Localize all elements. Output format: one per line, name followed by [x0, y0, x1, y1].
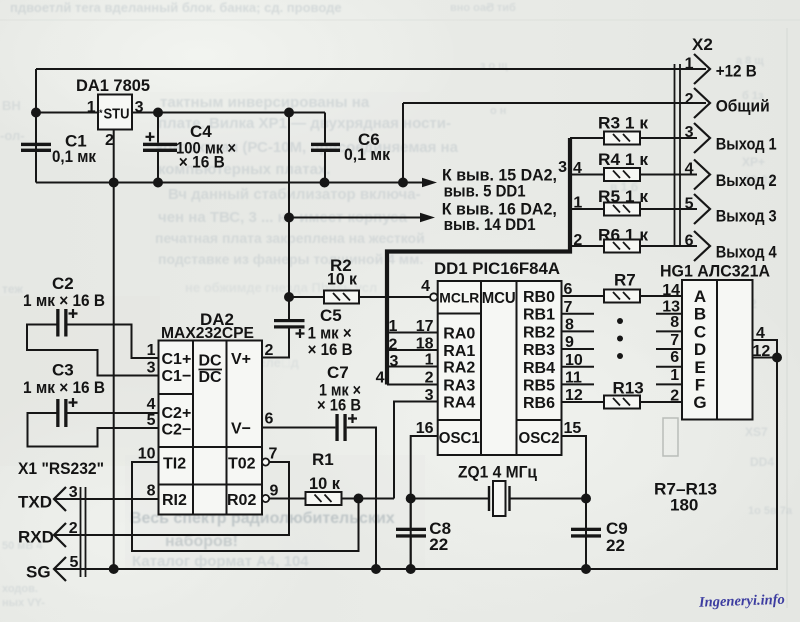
svg-text:6: 6 [265, 411, 274, 428]
DD1 pin name RB1 [523, 307, 555, 324]
node R2 top junction [285, 293, 293, 301]
svg-text:OSC1: OSC1 [439, 430, 480, 447]
value C5 1 mk x 16 V [308, 306, 353, 359]
svg-text:5: 5 [147, 412, 156, 429]
resistor R7 [604, 290, 640, 303]
svg-text:8: 8 [147, 483, 156, 500]
bleed artifact rectangle below HG1 [663, 418, 678, 456]
wire ZQ1 row [411, 498, 586, 500]
svg-text:22: 22 [429, 535, 448, 554]
capacitor C2 [56, 309, 77, 337]
svg-text:TXD: TXD [18, 493, 52, 512]
net label Vyhod 3 [716, 207, 777, 226]
wire RA4 down to R1 node [394, 402, 438, 499]
display HG1 ALS321A box [682, 280, 753, 420]
DA2 pin numbers [138, 342, 279, 500]
DD1 pin name RB3 [523, 342, 555, 359]
X2 pin numbers [685, 56, 694, 250]
node C4 top junction [154, 109, 162, 117]
svg-text:RI2: RI2 [162, 492, 187, 509]
DD1 MCU label [482, 290, 516, 307]
DD1 pin name MCLR [439, 290, 479, 306]
wire C2 right to C1+ pin1 [66, 325, 159, 359]
svg-text:4: 4 [573, 160, 582, 177]
svg-text:DD1 PIC16F84A: DD1 PIC16F84A [434, 259, 560, 278]
wire C9 leads [585, 499, 587, 570]
pin circle RO2 [262, 495, 269, 502]
svg-text:B: B [694, 305, 706, 324]
svg-text:выв. 14 DD1: выв. 14 DD1 [444, 215, 536, 234]
pin circle MCLR [430, 293, 437, 300]
resistor R2 [324, 291, 359, 304]
ellipsis dots between R7 and R13 [617, 318, 623, 359]
note R7-R13 180 [654, 480, 717, 515]
svg-text:17: 17 [416, 318, 434, 335]
svg-text:2: 2 [69, 520, 78, 537]
HG1 segment letter C [694, 322, 706, 341]
svg-text:RB2: RB2 [523, 324, 555, 341]
wire V- pin6 to C7 [262, 427, 335, 429]
svg-text:2: 2 [389, 337, 398, 354]
svg-text:E: E [694, 358, 705, 377]
svg-text:DC: DC [199, 353, 223, 370]
svg-text:HG1 АЛС321А: HG1 АЛС321А [660, 262, 770, 281]
svg-text:Выход 4: Выход 4 [716, 243, 777, 262]
svg-text:4: 4 [147, 396, 156, 413]
svg-text:4: 4 [685, 161, 694, 178]
svg-text:8: 8 [670, 314, 679, 331]
HG1 segment letter D [694, 340, 706, 359]
wire bottom ground rail / SG [54, 358, 777, 570]
svg-text:6: 6 [564, 281, 573, 298]
svg-text:C3: C3 [52, 361, 74, 380]
DD1 pin name RB4 [523, 360, 555, 377]
label HG1 ALS321A [660, 262, 770, 281]
connector X2 pin 1 chevron [694, 54, 710, 84]
svg-text:RA4: RA4 [443, 395, 475, 412]
wire C5 leads to V+ pin2 [262, 318, 289, 358]
value R6 1 k [598, 225, 649, 244]
svg-text:4: 4 [421, 278, 430, 295]
wire Obschiy (common) [403, 102, 706, 104]
svg-text:3: 3 [69, 484, 78, 501]
svg-text:11: 11 [565, 370, 582, 387]
capacitor C3 [56, 398, 77, 427]
net label Obschiy [716, 97, 770, 116]
wire R6 row [570, 245, 697, 247]
svg-text:15: 15 [564, 420, 582, 437]
svg-text:1 мк × 16 В: 1 мк × 16 В [23, 378, 105, 397]
net label SG [26, 563, 51, 582]
svg-text:10: 10 [565, 352, 583, 369]
connector X2 pin 5 chevron [694, 194, 710, 224]
wire C2 left loop to C1- pin3 [27, 325, 159, 376]
svg-text:18: 18 [416, 336, 434, 353]
svg-text:D: D [694, 340, 706, 359]
svg-text:TI2: TI2 [163, 456, 186, 473]
node C8 bottom junction [407, 565, 415, 573]
svg-text:MCU: MCU [482, 290, 516, 307]
wire arrow to pin16 DA2 pin14 DD1 [289, 217, 421, 219]
svg-text:1: 1 [670, 367, 679, 384]
DD1 pin name RB2 [523, 324, 555, 341]
DA2 pin name RI2 [162, 492, 187, 509]
svg-text:9: 9 [565, 334, 574, 351]
wire RA0 to bus [387, 332, 438, 334]
net label TXD [18, 493, 52, 512]
svg-text:Выход 3: Выход 3 [716, 207, 777, 226]
svg-text:*: * [99, 108, 103, 118]
label STU inside DA1 [99, 106, 130, 123]
resistor R13 [604, 396, 640, 409]
node C4 bottom junction [154, 179, 162, 187]
resistor R1 [306, 492, 342, 505]
HG1 segment letter F [695, 375, 705, 394]
svg-text:C1−: C1− [162, 368, 192, 385]
svg-text:C: C [694, 322, 706, 341]
connector X2 pin 4 chevron [694, 160, 710, 190]
svg-text:RB1: RB1 [523, 307, 555, 324]
wire RB5 row [562, 383, 683, 385]
svg-text:C2−: C2− [162, 422, 192, 439]
HG1 segment letter A [694, 287, 706, 306]
DD1 pin name RA1 [443, 343, 475, 360]
svg-text:3: 3 [390, 353, 399, 370]
DA2 pin name C2- [162, 422, 192, 439]
svg-text:R4 1 к: R4 1 к [598, 150, 649, 169]
wire R4 row [570, 174, 697, 176]
wire X2 cable marks [675, 64, 681, 247]
DD1 pin name RB0 [523, 289, 555, 306]
svg-text:22: 22 [606, 536, 625, 555]
X1 pin numbers 3 2 5 [69, 484, 79, 571]
DA2 pin name C1+ [162, 351, 192, 368]
svg-text:R3 1 к: R3 1 к [598, 113, 649, 132]
HG1 left pin numbers 14 13 8 7 6 1 2 [662, 282, 680, 405]
svg-text:T02: T02 [228, 456, 256, 473]
svg-text:Общий: Общий [716, 97, 770, 116]
connector X1 pin 5 chevron [54, 557, 66, 581]
capacitor C7 [335, 414, 357, 441]
node DA1 pin2 ground junction [110, 179, 118, 187]
svg-text:RA3: RA3 [443, 378, 475, 395]
svg-text:3: 3 [558, 159, 567, 176]
svg-text:4: 4 [756, 325, 765, 342]
svg-text:2: 2 [685, 91, 694, 108]
wire left vertical (+12V drop to DA1 pin1 and C1) [35, 69, 37, 183]
DD1 pin name RA4 [443, 395, 475, 412]
DD1 pin name OSC2 [519, 430, 560, 447]
IC DD1 PIC16F84A box [438, 281, 562, 455]
svg-text:1 мк × 16 В: 1 мк × 16 В [23, 291, 105, 310]
svg-text:V−: V− [231, 421, 251, 438]
svg-text:7: 7 [670, 332, 679, 349]
wire to DA1 pin 1 [36, 112, 98, 114]
wire DA1 pin2 long ground vertical [113, 130, 115, 570]
svg-text:STU: STU [104, 106, 130, 123]
svg-text:1: 1 [389, 318, 398, 335]
wire R3 row [570, 137, 697, 139]
svg-text:0,1 мк: 0,1 мк [52, 147, 96, 166]
bus thick line RA outputs to resistors [387, 138, 570, 385]
svg-text:DC: DC [199, 369, 223, 386]
DA2 pin name V- [231, 421, 251, 438]
wire C3 left loop to C2- pin5 [28, 413, 159, 447]
svg-text:4: 4 [376, 370, 385, 387]
svg-text:3: 3 [685, 124, 694, 141]
svg-text:Выход 2: Выход 2 [716, 171, 777, 190]
IC DA2 MAX232CPE box [159, 341, 263, 515]
value R1 10 k [309, 450, 340, 493]
label R7 [614, 270, 636, 289]
HG1 segment letter E [694, 358, 705, 377]
svg-text:13: 13 [662, 298, 680, 315]
HG1 right pin numbers 4 12 [753, 325, 771, 360]
svg-text:6: 6 [670, 349, 679, 366]
DD1 left pin numbers 4 17 18 1 2 3 16 [416, 278, 434, 437]
wire C7 right down to ground [347, 428, 376, 570]
node R1-RA4-TI2 junction [355, 495, 363, 503]
wire +5V vertical down to C5 [288, 113, 290, 320]
value C7 1 mk x 16 V [317, 363, 361, 415]
resistor R4 [604, 168, 640, 181]
svg-text:MAX232CPE: MAX232CPE [161, 325, 254, 342]
wire arrow to pin15 DA2 pin5 DD1 (arrowhead) [422, 178, 437, 187]
svg-text:RXD: RXD [18, 528, 54, 547]
net label Vyhod 2 [716, 171, 777, 190]
svg-text:RB3: RB3 [523, 342, 555, 359]
DA2 pin name TO2 [228, 456, 256, 473]
HG1 segment letter G [693, 393, 706, 412]
wire R2 to MCLR [359, 296, 430, 298]
node Obschiy ground junction [399, 179, 407, 187]
wire C6 leads [324, 113, 326, 183]
DA2 pin name V+ [231, 351, 251, 368]
svg-text:3: 3 [425, 387, 434, 404]
value C8 22 [429, 519, 451, 554]
wire RB6 row through R13 [562, 401, 683, 403]
svg-text:RA0: RA0 [443, 326, 475, 343]
svg-text:× 16 В: × 16 В [179, 153, 225, 172]
svg-text:2: 2 [670, 388, 679, 405]
svg-text:16: 16 [416, 420, 434, 437]
svg-text:8: 8 [565, 317, 574, 334]
net label Vyhod 1 [716, 135, 777, 154]
svg-text:0,1 мк: 0,1 мк [344, 145, 390, 164]
svg-text:X1 "RS232": X1 "RS232" [18, 459, 104, 478]
label X2 [692, 35, 713, 54]
label X1 RS232 [18, 459, 104, 478]
svg-text:MCLR: MCLR [439, 290, 479, 306]
wire TO2 to RXD [54, 462, 289, 535]
connector X2 pin 3 chevron [694, 123, 710, 153]
DD1 right pin numbers 6 7 8 9 10 11 12 15 [564, 281, 583, 437]
resistor R5 [604, 203, 640, 216]
node SG-DA1gnd junction [110, 565, 118, 573]
DD1 pin name RA2 [443, 360, 475, 377]
svg-text:10: 10 [138, 446, 156, 463]
pin circle TO2 [262, 458, 269, 465]
wire RB3 row [562, 348, 683, 350]
label ZQ1 4 MHz [458, 462, 537, 481]
DD1 pin name RA0 [443, 326, 475, 343]
svg-text:RB4: RB4 [523, 360, 555, 377]
wire ground rail [36, 182, 423, 184]
value R5 1 k [598, 187, 649, 206]
watermark Ingeneryi.info [699, 591, 800, 611]
DD1 pin name RA3 [443, 378, 475, 395]
crystal ZQ1 [489, 481, 510, 516]
voltage regulator DA1 7805 box [98, 95, 132, 130]
net label +12 V [716, 62, 757, 81]
wire R1 to RA4 node [342, 498, 395, 500]
net label RXD [18, 528, 54, 547]
bus wire numbers at DD1 end 1 2 3 4 [376, 318, 399, 387]
svg-text:14: 14 [662, 282, 680, 299]
node HG1 pin12 junction [773, 354, 781, 362]
wire C3 right to C2+ pin4 [66, 412, 159, 414]
svg-text:R13: R13 [613, 378, 644, 397]
wire +5V to R2 [289, 296, 324, 298]
svg-text:7: 7 [269, 446, 278, 463]
svg-text:3: 3 [147, 360, 156, 377]
value C9 22 [606, 519, 628, 555]
node C9 bottom junction [582, 565, 590, 573]
wire +12V top rail [36, 68, 706, 70]
capacitor C6 [311, 143, 340, 152]
node C6 bottom junction [321, 179, 329, 187]
svg-text:SG: SG [26, 563, 51, 582]
svg-text:Выход 1: Выход 1 [716, 135, 777, 154]
svg-text:1: 1 [425, 352, 434, 369]
capacitor C1 [21, 143, 51, 152]
net note K vyv.15 DA2 vyv.5 DD1 [442, 166, 557, 201]
connector X1 pin 3 chevron [54, 487, 66, 511]
connector X1 pin 2 chevron [54, 523, 66, 547]
wire DA1 output +5V rail [132, 112, 325, 114]
svg-text:R02: R02 [227, 492, 256, 509]
bus wire numbers at resistor end 3 4 1 2 [558, 159, 582, 249]
svg-text:10 к: 10 к [309, 474, 340, 493]
wire RA3 to bus [387, 384, 438, 386]
capacitor C9 [571, 528, 601, 538]
resistor R3 [604, 132, 640, 145]
svg-text:RB6: RB6 [523, 395, 555, 412]
svg-text:RB5: RB5 [523, 377, 555, 394]
wire R5 row [570, 208, 697, 210]
label DA1 7805 [76, 76, 150, 95]
svg-text:V+: V+ [231, 351, 251, 368]
label DD1 PIC16F84A [434, 259, 560, 278]
svg-text:R5 1 к: R5 1 к [598, 187, 649, 206]
DA2 DC/DC converter label [199, 353, 223, 387]
svg-text:R7: R7 [614, 270, 636, 289]
svg-text:180: 180 [670, 496, 698, 515]
svg-text:C5: C5 [320, 306, 342, 325]
svg-text:10 к: 10 к [327, 270, 357, 289]
wire RB2 row [562, 330, 683, 332]
connector X2 pin 2 chevron [694, 88, 710, 118]
svg-text:1: 1 [147, 342, 156, 359]
value C3 1 mk x 16 V [23, 361, 105, 397]
wire RB0 row through R7 [562, 295, 683, 297]
node ZQ1 left junction [407, 495, 415, 503]
wire RB1 row [562, 313, 683, 315]
svg-text:1: 1 [573, 195, 582, 212]
svg-text:6: 6 [685, 233, 694, 250]
svg-text:C1+: C1+ [162, 351, 192, 368]
svg-text:DA1 7805: DA1 7805 [76, 76, 150, 95]
node ZQ1 right junction [582, 495, 590, 503]
svg-text:5: 5 [685, 196, 694, 213]
wire RA1 to bus [387, 349, 438, 351]
svg-text:C7: C7 [327, 363, 349, 382]
svg-text:C2+: C2+ [162, 405, 192, 422]
svg-text:7: 7 [564, 299, 573, 316]
resistor R6 [604, 240, 640, 253]
svg-text:X2: X2 [692, 35, 713, 54]
svg-text:2: 2 [265, 342, 274, 359]
capacitor C4 [143, 132, 177, 152]
svg-text:OSC2: OSC2 [519, 430, 560, 447]
svg-text:R1: R1 [312, 450, 334, 469]
svg-text:5: 5 [70, 554, 79, 571]
DA2 pin name C1- [162, 368, 192, 385]
value C2 1 mk x 16 V [23, 274, 105, 310]
DD1 pin name RB5 [523, 377, 555, 394]
value R4 1 k [598, 150, 649, 169]
svg-text:2: 2 [105, 132, 114, 149]
svg-text:2: 2 [573, 232, 582, 249]
wire X1 cable marks [81, 487, 86, 577]
wire OSC1 [411, 436, 438, 569]
wire OSC2 [562, 436, 587, 569]
capacitor C8 [396, 528, 426, 538]
label R13 [613, 378, 644, 397]
svg-text:1: 1 [685, 56, 694, 73]
node +5V vertical junction [285, 109, 293, 117]
DD1 pin name RB6 [523, 395, 555, 412]
value R3 1 k [598, 113, 649, 132]
DA2 pin name TI2 [163, 456, 186, 473]
svg-text:A: A [694, 287, 706, 306]
node +5V arrow2 junction [285, 214, 293, 222]
svg-text:RB0: RB0 [523, 289, 555, 306]
svg-text:12: 12 [753, 343, 771, 360]
DD1 pin name OSC1 [439, 430, 480, 447]
svg-text:× 16 В: × 16 В [317, 396, 361, 415]
wire Obschiy vertical [402, 103, 404, 183]
wire HG1 pins 4 and 12 tab [753, 340, 778, 358]
value R2 10 k [327, 256, 357, 289]
connector X2 pin 6 chevron [694, 231, 710, 261]
svg-text:9: 9 [270, 483, 279, 500]
net label Vyhod 4 [716, 243, 777, 262]
wire TI2 loop to R1 node [132, 462, 359, 551]
value C1 0,1 mk [52, 131, 96, 166]
svg-text:F: F [695, 375, 705, 394]
node C7 bottom junction [372, 565, 380, 573]
arrowhead 2 [420, 213, 435, 222]
svg-text:RA1: RA1 [443, 343, 475, 360]
svg-text:3: 3 [135, 99, 144, 116]
DA1 pin numbers 1 2 3 [87, 99, 144, 149]
svg-text:2: 2 [425, 370, 434, 387]
svg-text:+12 В: +12 В [716, 62, 757, 81]
wire RB4 row [562, 366, 683, 368]
wire TXD to RI2 pin8 [54, 498, 159, 500]
svg-text:G: G [693, 393, 706, 412]
